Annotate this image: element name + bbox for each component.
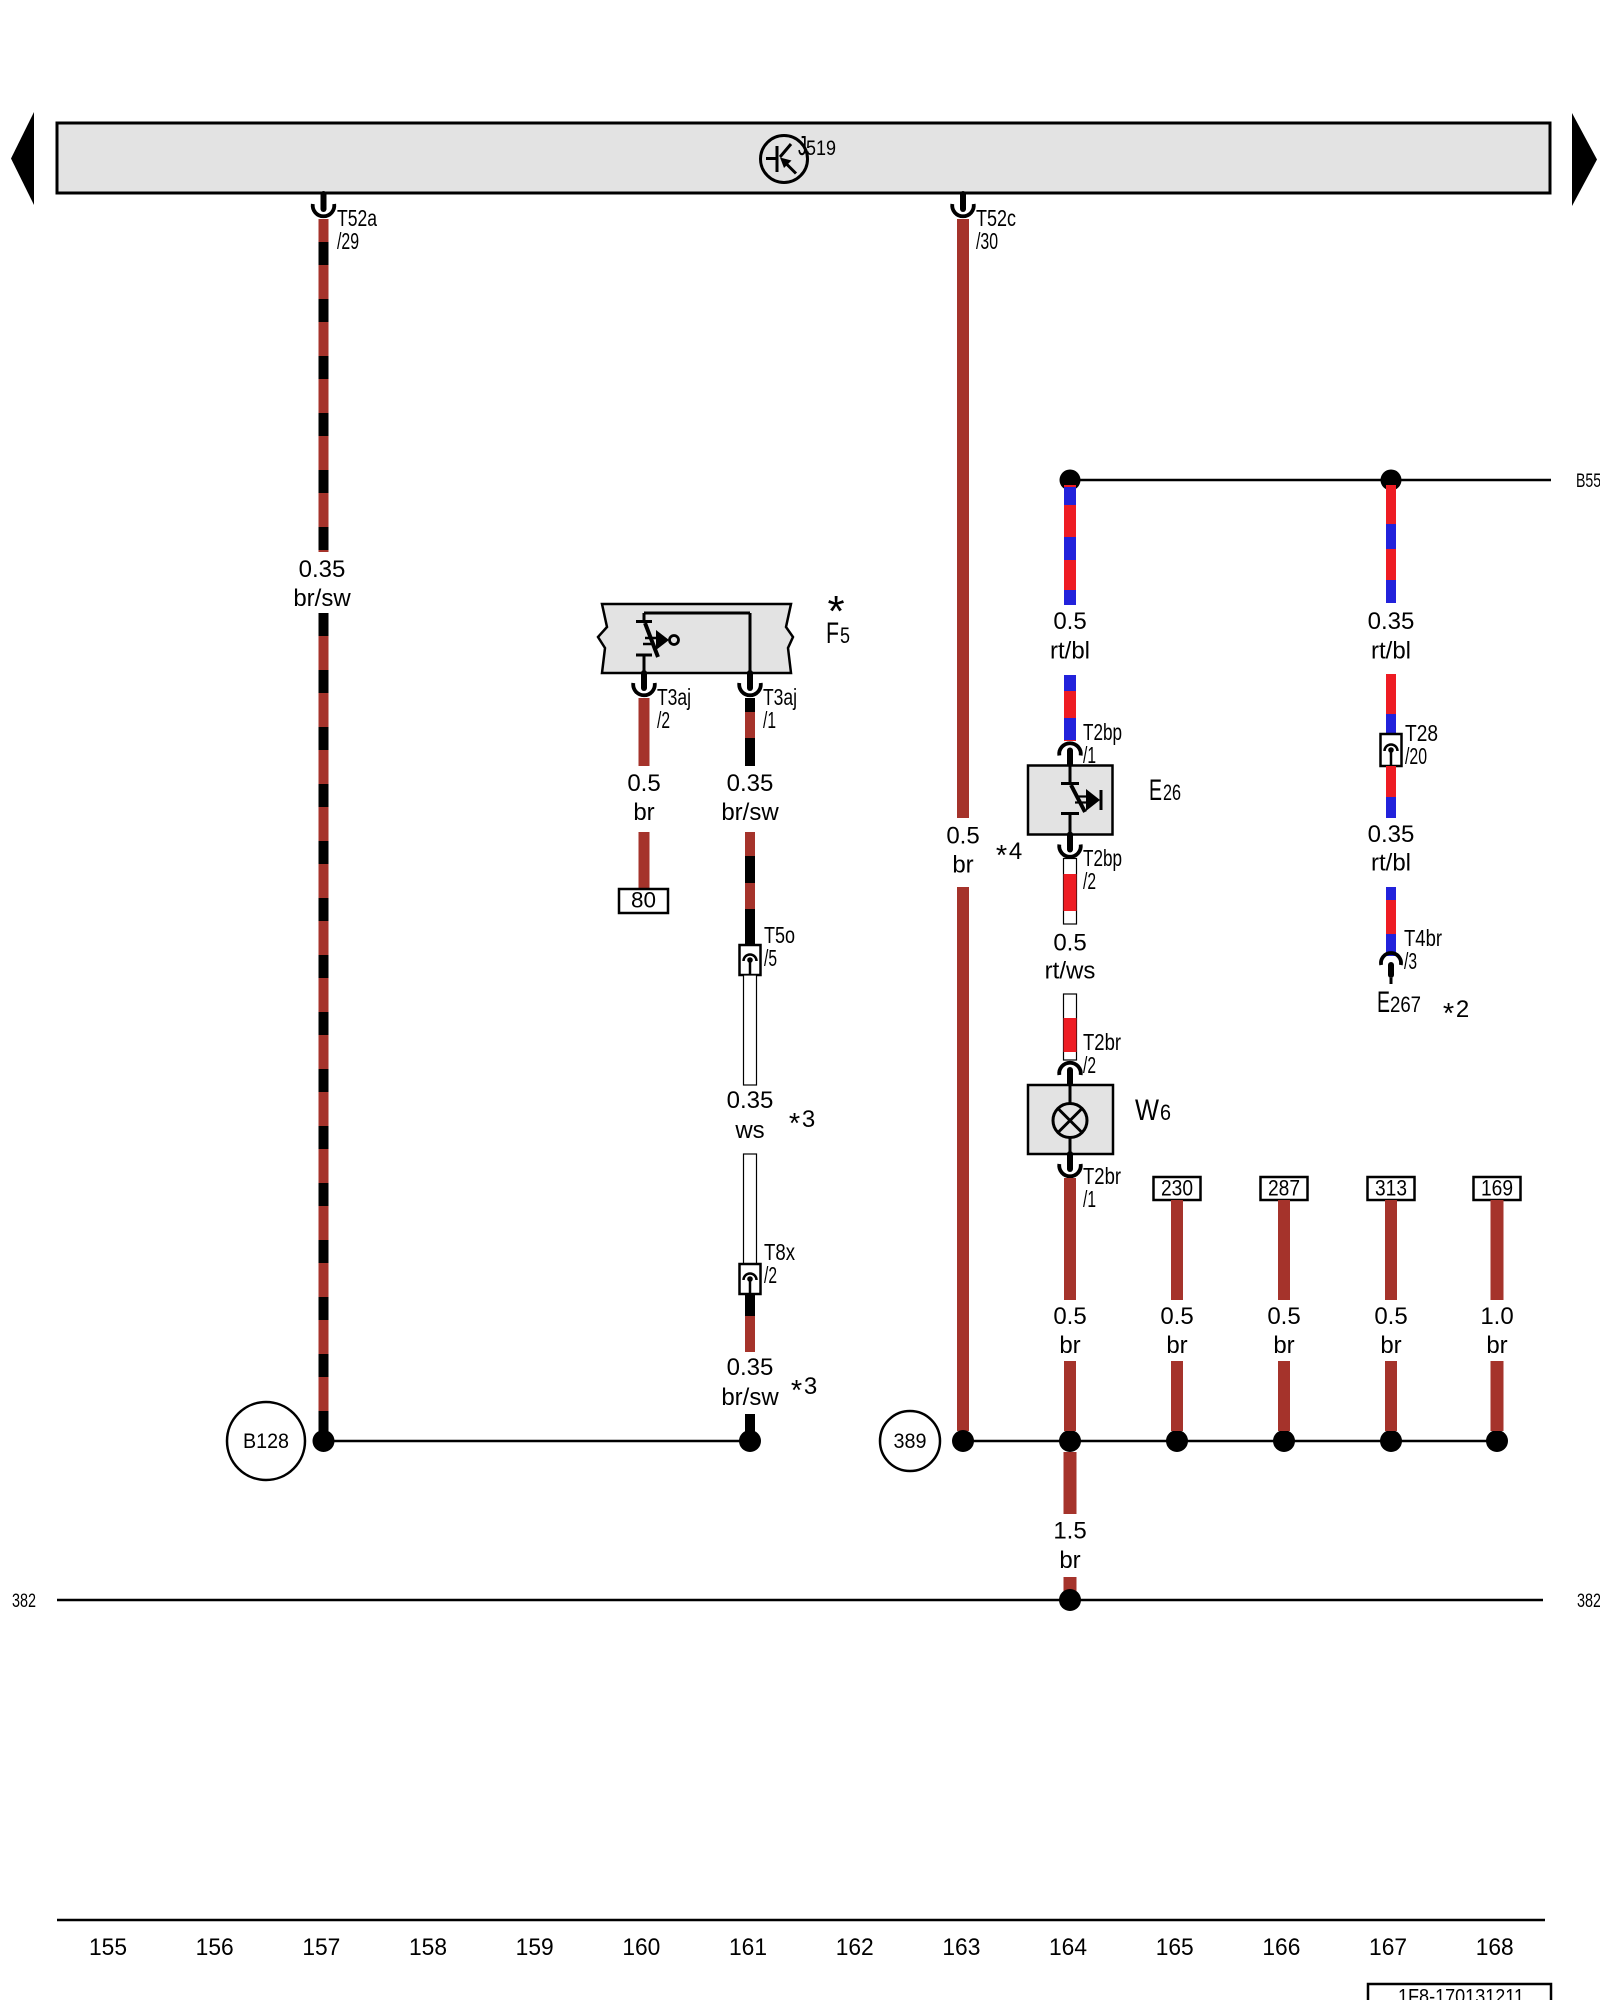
wire 0.5 br (W6) xyxy=(1064,1178,1076,1300)
svg-text:26: 26 xyxy=(1163,780,1181,805)
connector T8x /2 xyxy=(740,1239,796,1294)
net B559 wire xyxy=(1070,479,1551,482)
wire 0.35 br/sw seg a xyxy=(745,698,755,766)
wire harness bus bar (control unit J519 supply rail) xyxy=(57,123,1550,193)
svg-text:br/sw: br/sw xyxy=(721,799,779,826)
svg-text:br: br xyxy=(1059,1332,1080,1359)
svg-text:*: * xyxy=(1443,998,1454,1030)
connector T4br pin /3 xyxy=(1381,925,1442,984)
svg-text:W: W xyxy=(1135,1094,1160,1127)
label 0.5 br (287) xyxy=(1267,1303,1300,1359)
svg-text:/2: /2 xyxy=(764,1262,777,1288)
wire stub (287) xyxy=(1278,1361,1290,1431)
svg-text:br: br xyxy=(1166,1332,1187,1359)
svg-text:/2: /2 xyxy=(1083,868,1096,894)
svg-text:/1: /1 xyxy=(1083,742,1096,768)
door contact switch E26 box xyxy=(1028,766,1113,835)
ground designation box 80 xyxy=(619,888,668,914)
svg-text:4: 4 xyxy=(1009,838,1022,865)
svg-text:0.35: 0.35 xyxy=(1368,608,1415,635)
svg-text:267: 267 xyxy=(1390,992,1421,1017)
svg-text:163: 163 xyxy=(942,1934,980,1961)
svg-text:0.5: 0.5 xyxy=(1374,1303,1407,1330)
svg-text:80: 80 xyxy=(631,888,656,913)
ground bus wire B128 xyxy=(324,1440,751,1443)
svg-text:0.35: 0.35 xyxy=(299,556,346,583)
svg-text:155: 155 xyxy=(89,1934,127,1961)
wire stub col164 xyxy=(1064,1361,1076,1431)
node B559 col167 xyxy=(1381,470,1402,491)
connection box 287 xyxy=(1261,1176,1308,1201)
label 0.35 br/sw (2) xyxy=(721,770,779,826)
svg-text:160: 160 xyxy=(622,1934,660,1961)
svg-text:br: br xyxy=(1380,1332,1401,1359)
connector T2br pin /1 xyxy=(1059,1154,1121,1212)
right continuation arrow xyxy=(1572,113,1597,206)
svg-text:*: * xyxy=(789,1108,800,1140)
label 0.5 br (230) xyxy=(1160,1303,1193,1359)
svg-text:156: 156 xyxy=(196,1934,234,1961)
svg-text:166: 166 xyxy=(1262,1934,1300,1961)
wire 0.5 br (313) xyxy=(1385,1200,1397,1300)
wire 0.5 br (230) xyxy=(1171,1200,1183,1300)
svg-text:E: E xyxy=(1149,774,1162,807)
svg-text:rt/bl: rt/bl xyxy=(1050,638,1090,665)
svg-text:br: br xyxy=(633,799,654,826)
oil pressure switch F5 (partial box) xyxy=(598,604,793,673)
svg-text:1F8-170131211: 1F8-170131211 xyxy=(1398,1986,1524,2000)
label 382 left xyxy=(12,1591,36,1612)
label W6 xyxy=(1135,1094,1171,1127)
wire 0.35 br/sw seg b xyxy=(745,832,755,945)
connector T3aj pin /2 xyxy=(633,673,691,733)
svg-text:6: 6 xyxy=(1160,1100,1171,1125)
wire 1.0 br (169) xyxy=(1491,1200,1504,1300)
svg-text:/2: /2 xyxy=(1083,1052,1096,1078)
label 0.5 br xyxy=(627,770,660,826)
label 1.5 br xyxy=(1053,1518,1086,1575)
node junction 389 bus x=963 xyxy=(952,1430,974,1452)
svg-text:158: 158 xyxy=(409,1934,447,1961)
label B559 xyxy=(1576,471,1600,492)
note *2 xyxy=(1443,996,1469,1030)
svg-text:/30: /30 xyxy=(976,228,998,254)
label E267 xyxy=(1377,986,1421,1019)
node junction 382 xyxy=(1059,1589,1081,1611)
svg-text:0.5: 0.5 xyxy=(1053,608,1086,635)
svg-text:rt/bl: rt/bl xyxy=(1371,850,1411,877)
label 0.5 br (W6) xyxy=(1053,1303,1086,1359)
svg-text:2: 2 xyxy=(1456,996,1469,1023)
svg-text:5: 5 xyxy=(840,623,850,648)
label 0.35 rt/bl (2) xyxy=(1368,821,1415,877)
connection box 313 xyxy=(1368,1176,1415,1201)
wire stub to B128 node xyxy=(745,1414,755,1432)
node junction col161 xyxy=(739,1430,761,1452)
svg-text:br: br xyxy=(1273,1332,1294,1359)
label F5 xyxy=(826,617,850,650)
asterisk note above F5 xyxy=(827,587,844,636)
node B559 col164 xyxy=(1060,470,1081,491)
label 0.5 br (T52c) xyxy=(946,823,979,879)
svg-text:230: 230 xyxy=(1161,1176,1193,1201)
wire 0.35 br/sw seg c xyxy=(745,1295,755,1352)
connector T3aj pin /1 xyxy=(739,673,797,733)
wire stub (313) xyxy=(1385,1361,1397,1431)
svg-text:169: 169 xyxy=(1481,1176,1513,1201)
svg-text:/29: /29 xyxy=(337,228,359,254)
svg-text:3: 3 xyxy=(802,1106,815,1133)
connector T52c pin /30 xyxy=(952,194,1016,254)
connection box 230 xyxy=(1154,1176,1201,1201)
svg-text:br: br xyxy=(1486,1332,1507,1359)
svg-text:0.5: 0.5 xyxy=(1053,1303,1086,1330)
wire 0.5 br upper xyxy=(639,698,650,766)
svg-text:389: 389 xyxy=(894,1430,927,1453)
ground net 382 wire xyxy=(57,1599,1543,1602)
label 0.35 br/sw (3) xyxy=(721,1354,779,1411)
svg-text:0.5: 0.5 xyxy=(1053,930,1086,957)
svg-text:162: 162 xyxy=(836,1934,874,1961)
svg-text:165: 165 xyxy=(1156,1934,1194,1961)
svg-text:/1: /1 xyxy=(763,707,776,733)
svg-text:*: * xyxy=(996,840,1007,872)
wire 0.35 br/sw lower segment xyxy=(319,613,329,1437)
wire 0.35 ws upper xyxy=(744,975,757,1085)
node junction 389 bus x=1284 xyxy=(1273,1430,1295,1452)
svg-text:0.35: 0.35 xyxy=(727,770,774,797)
note *4 xyxy=(996,838,1022,872)
connector T52a pin /29 xyxy=(313,194,377,254)
wire 0.35 br/sw upper segment xyxy=(319,219,329,552)
diagram number box 1F8-170131211 xyxy=(1368,1984,1551,2000)
connector T5o /5 xyxy=(740,922,796,975)
left continuation arrow xyxy=(11,112,34,205)
connector T2bp pin /1 xyxy=(1059,719,1122,768)
svg-text:/5: /5 xyxy=(764,945,777,971)
bottom current-track scale line xyxy=(57,1919,1545,1922)
svg-text:382: 382 xyxy=(1577,1591,1600,1612)
label 382 right xyxy=(1577,1591,1600,1612)
label 0.5 br (313) xyxy=(1374,1303,1407,1359)
svg-text:168: 168 xyxy=(1476,1934,1514,1961)
wire 1.5 br xyxy=(1064,1452,1077,1514)
svg-text:F: F xyxy=(826,617,839,650)
wire 0.5 rt/bl (2) xyxy=(1064,675,1076,741)
svg-text:br: br xyxy=(952,852,973,879)
connector T2bp pin /2 xyxy=(1059,835,1122,895)
svg-text:0.5: 0.5 xyxy=(627,770,660,797)
svg-text:0.5: 0.5 xyxy=(1160,1303,1193,1330)
wire 0.5 br (287) xyxy=(1278,1200,1290,1300)
svg-text:br/sw: br/sw xyxy=(721,1384,779,1411)
ground point B128 circle xyxy=(227,1402,305,1480)
svg-text:157: 157 xyxy=(302,1934,340,1961)
svg-text:313: 313 xyxy=(1375,1176,1407,1201)
wire 0.35 ws lower xyxy=(744,1154,757,1264)
wire 0.35 rt/bl (4) xyxy=(1386,887,1396,956)
label 1.0 br (169) xyxy=(1480,1303,1513,1359)
control unit J519 symbol xyxy=(761,130,837,183)
node junction at B128 xyxy=(313,1430,335,1452)
connector T2br pin /2 xyxy=(1059,1029,1121,1085)
node junction 389 bus x=1497 xyxy=(1486,1430,1508,1452)
svg-text:3: 3 xyxy=(804,1373,817,1400)
svg-text:ws: ws xyxy=(734,1117,764,1144)
label E26 xyxy=(1149,774,1181,807)
ground bus wire 389 xyxy=(963,1440,1497,1443)
note *3 (br/sw) xyxy=(791,1373,817,1407)
svg-text:0.5: 0.5 xyxy=(946,823,979,850)
svg-text:167: 167 xyxy=(1369,1934,1407,1961)
svg-text:br: br xyxy=(1059,1547,1080,1574)
svg-text:0.35: 0.35 xyxy=(727,1354,774,1381)
wire stub (169) xyxy=(1491,1361,1504,1431)
wire 0.5 rt/bl xyxy=(1064,485,1076,605)
svg-text:/3: /3 xyxy=(1404,948,1417,974)
svg-text:0.5: 0.5 xyxy=(1267,1303,1300,1330)
svg-text:0.35: 0.35 xyxy=(727,1087,774,1114)
svg-text:*: * xyxy=(791,1375,802,1407)
svg-text:br/sw: br/sw xyxy=(293,585,351,612)
label 0.35 ws xyxy=(727,1087,774,1144)
svg-text:1.5: 1.5 xyxy=(1053,1518,1086,1545)
connection box 169 xyxy=(1474,1176,1521,1201)
wire 0.5 br long upper xyxy=(957,219,969,818)
interior light W6 box (lamp) xyxy=(1028,1085,1113,1154)
label 0.5 rt/bl xyxy=(1050,608,1090,665)
svg-text:287: 287 xyxy=(1268,1176,1300,1201)
svg-text:159: 159 xyxy=(516,1934,554,1961)
label 0.35 rt/bl xyxy=(1368,608,1415,665)
wire 0.5 br lower xyxy=(639,832,650,889)
svg-text:B559: B559 xyxy=(1576,471,1600,492)
note *3 (ws) xyxy=(789,1106,815,1140)
wire 0.5 rt/ws (2) xyxy=(1064,994,1077,1060)
svg-text:519: 519 xyxy=(806,137,836,160)
node junction 389 bus x=1391 xyxy=(1380,1430,1402,1452)
svg-text:382: 382 xyxy=(12,1591,36,1612)
label 0.5 rt/ws xyxy=(1045,930,1096,985)
svg-text:161: 161 xyxy=(729,1934,767,1961)
ground point 389 circle xyxy=(880,1411,940,1471)
svg-text:0.35: 0.35 xyxy=(1368,821,1415,848)
wire stub (230) xyxy=(1171,1361,1183,1431)
wire 0.5 rt/ws xyxy=(1064,859,1077,925)
svg-text:/1: /1 xyxy=(1083,1186,1096,1212)
svg-text:/2: /2 xyxy=(657,707,670,733)
svg-text:rt/bl: rt/bl xyxy=(1371,638,1411,665)
connector T28 /20 xyxy=(1381,720,1439,769)
wire 0.5 br long lower xyxy=(957,887,969,1431)
svg-text:E: E xyxy=(1377,986,1390,1019)
svg-text:rt/ws: rt/ws xyxy=(1045,958,1096,985)
node junction 389 bus x=1070 xyxy=(1059,1430,1081,1452)
wire 0.35 rt/bl (2) xyxy=(1386,674,1396,734)
wire stub to 382 xyxy=(1064,1577,1077,1595)
label 0.35 br/sw xyxy=(293,556,351,612)
current track numbers 155-168 xyxy=(89,1934,1514,1961)
wire 0.35 rt/bl (3) xyxy=(1386,766,1396,818)
svg-text:B128: B128 xyxy=(243,1430,289,1453)
svg-text:164: 164 xyxy=(1049,1934,1087,1961)
svg-text:1.0: 1.0 xyxy=(1480,1303,1513,1330)
svg-text:/20: /20 xyxy=(1405,743,1427,769)
node junction 389 bus x=1177 xyxy=(1166,1430,1188,1452)
wire 0.35 rt/bl xyxy=(1386,485,1396,603)
